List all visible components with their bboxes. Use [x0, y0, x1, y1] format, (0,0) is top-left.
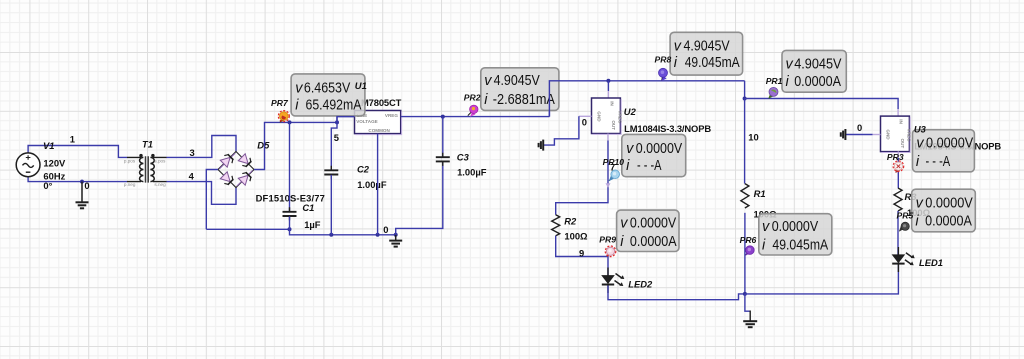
wire U2 output down (net 7): [607, 134, 609, 141]
probe PR2 measurement box: [481, 68, 559, 111]
svg-text:GND: GND: [597, 111, 602, 122]
ground symbol (net 0, middle): [389, 235, 402, 247]
svg-text:IN: IN: [898, 119, 903, 124]
svg-text:PR5: PR5: [897, 210, 914, 220]
svg-text:VREG: VREG: [617, 110, 622, 123]
diode D5b (top-right edge): [238, 153, 253, 168]
svg-text:PR6: PR6: [740, 235, 757, 245]
svg-text:IN: IN: [609, 101, 614, 106]
capacitor C3: [436, 117, 450, 166]
svg-text:9: 9: [579, 248, 584, 259]
svg-text:PR1: PR1: [766, 76, 783, 86]
svg-text:OUT: OUT: [900, 139, 905, 149]
svg-text:0.0000A: 0.0000A: [630, 234, 677, 250]
svg-text:49.045mA: 49.045mA: [772, 238, 828, 254]
svg-text:3: 3: [190, 147, 195, 158]
wire over PR2 box (net 6 corner): [549, 81, 560, 117]
wire bottom rail to LED1: [745, 263, 899, 294]
junction net0/ground: [80, 180, 84, 184]
probe PR8 (blue-violet): [659, 68, 668, 81]
svg-text:DF1510S-E3/77: DF1510S-E3/77: [256, 192, 325, 203]
diode D5d (bottom-right edge): [238, 171, 253, 186]
junction U2 input: [606, 79, 610, 83]
resistor R3: [894, 188, 902, 211]
voltage regulator U1 (LM7805CT): [355, 111, 402, 135]
svg-text:-2.6881mA: -2.6881mA: [493, 92, 555, 108]
ground symbol (net 0, left): [76, 182, 89, 209]
wire top right down to net 10: [744, 81, 746, 99]
svg-text:v: v: [620, 215, 628, 231]
probe PR5 (dark grey): [899, 222, 909, 231]
svg-text:4.9045V: 4.9045V: [494, 73, 541, 89]
wire bridge left vertex to ground rail (net 0): [206, 170, 218, 230]
svg-text:R1: R1: [754, 188, 766, 199]
junction C1 top: [288, 120, 292, 124]
svg-text:VREG: VREG: [906, 129, 911, 142]
probe PR6 (violet): [745, 246, 754, 256]
wire U2 input stub: [607, 81, 609, 91]
ground symbol (net 0, U3) rotated: [841, 129, 846, 140]
wire bridge right vertex up to DC+: [254, 122, 337, 169]
svg-text:49.045mA: 49.045mA: [685, 55, 740, 71]
svg-text:- - -A: - - -A: [926, 154, 951, 170]
bridge rectifier D5: [218, 152, 254, 188]
svg-text:1: 1: [70, 134, 75, 145]
svg-text:0.0000V: 0.0000V: [630, 215, 677, 231]
ground symbol (net 0, U2) rotated: [539, 140, 544, 151]
svg-text:LM1084IS-3.3/NOPB: LM1084IS-3.3/NOPB: [624, 123, 711, 134]
svg-text:0.0000A: 0.0000A: [925, 213, 972, 229]
svg-text:v: v: [295, 80, 303, 96]
wire U3 output down (net 11): [897, 151, 899, 158]
LED2 diode: [602, 268, 625, 294]
probe PR1 measurement box: [782, 50, 846, 92]
svg-text:GND: GND: [886, 129, 891, 140]
svg-text:5: 5: [334, 132, 339, 143]
wire R3 to LED1: [897, 211, 899, 255]
svg-text:0: 0: [84, 180, 89, 191]
wire U3 gnd to ground: [873, 134, 881, 136]
wire net3 (T1 secondary to bridge top): [167, 136, 237, 158]
svg-text:0.0000V: 0.0000V: [772, 219, 819, 235]
diode D5a (left-top edge): [220, 153, 235, 168]
AC source V1: [16, 153, 40, 177]
wire corner up and top run (net 6): [549, 81, 744, 117]
svg-text:4: 4: [189, 171, 195, 182]
svg-text:v: v: [674, 39, 682, 55]
svg-text:v: v: [484, 73, 492, 89]
junction mid ground: [394, 233, 398, 237]
ground symbol (net 0, bottom right): [743, 321, 757, 327]
wire U1 output to corner: [401, 116, 550, 118]
svg-text:s.pos: s.pos: [154, 159, 166, 164]
svg-text:PR10: PR10: [603, 157, 625, 167]
svg-text:0°: 0°: [43, 180, 52, 191]
svg-text:0.0000A: 0.0000A: [794, 74, 841, 90]
svg-text:1.00µF: 1.00µF: [357, 179, 387, 190]
svg-text:LED1: LED1: [919, 257, 943, 268]
svg-text:C2: C2: [357, 163, 370, 174]
svg-text:OUT: OUT: [611, 120, 616, 130]
svg-text:T1: T1: [142, 139, 153, 150]
svg-text:4.9045V: 4.9045V: [684, 39, 730, 55]
svg-text:COMMON: COMMON: [368, 128, 390, 133]
svg-text:120V: 120V: [43, 158, 66, 169]
wire net4 (T1 secondary to bridge bottom): [167, 182, 237, 205]
svg-text:p.pos: p.pos: [124, 159, 136, 164]
junction C1 bottom: [288, 227, 292, 231]
svg-text:0.0000V: 0.0000V: [926, 136, 974, 152]
wire ground rail right segment to C3: [396, 162, 443, 235]
ground jog bottom right: [745, 294, 750, 311]
svg-text:0.0000V: 0.0000V: [925, 196, 973, 212]
svg-text:6.4653V: 6.4653V: [304, 80, 351, 96]
wire net0 bottom (V1 to T1 primary, ground rail): [28, 177, 127, 182]
probe PR8 measurement box: [670, 32, 743, 75]
probe PR3 (white/red dashed): [893, 161, 904, 173]
junction bottom right rail: [743, 292, 747, 296]
svg-text:65.492mA: 65.492mA: [306, 98, 362, 114]
resistor R1: [741, 99, 749, 294]
svg-text:U1: U1: [355, 80, 367, 91]
probe PR1 (violet/green): [768, 87, 778, 98]
wire U2 gnd to ground: [579, 115, 592, 117]
wire step up into U1 input: [337, 117, 355, 123]
svg-text:C1: C1: [302, 202, 314, 213]
probe PR7 measurement box: [291, 74, 365, 116]
svg-text:D5: D5: [257, 139, 270, 150]
svg-text:v: v: [626, 141, 634, 157]
svg-text:v: v: [916, 136, 924, 152]
svg-text:PR2: PR2: [464, 92, 481, 102]
svg-text:1µF: 1µF: [304, 219, 321, 230]
wire net1 top (V1 to T1 primary): [28, 146, 127, 158]
regulator U2 (LM1084IS-3.3/NOPB): [592, 98, 623, 134]
probe PR10 measurement box: [622, 134, 686, 176]
transformer T1: [127, 154, 167, 183]
svg-text:v: v: [762, 219, 770, 235]
svg-text:PR8: PR8: [655, 54, 672, 64]
capacitor C2 (with jog from junction): [324, 122, 338, 234]
svg-text:V1: V1: [43, 140, 54, 151]
svg-text:p.neg: p.neg: [124, 182, 136, 187]
junction C3 top: [441, 115, 445, 119]
wire LED2 to bottom junction: [608, 286, 745, 300]
probe PR6 measurement box: [759, 214, 832, 255]
capacitor C1: [283, 122, 297, 229]
probe PR9 measurement box: [617, 210, 679, 251]
svg-text:LED2: LED2: [628, 278, 653, 289]
svg-text:1.00µF: 1.00µF: [457, 167, 487, 178]
svg-text:PR3: PR3: [887, 152, 904, 162]
junction C2 bottom: [329, 233, 333, 237]
wire R2 bottom to LED2 (net 9): [556, 236, 608, 276]
U2 out pin arrow: [606, 183, 611, 188]
probe PR2 (magenta): [468, 105, 478, 117]
svg-text:- - -A: - - -A: [637, 158, 662, 174]
svg-text:v: v: [916, 196, 924, 212]
probe PR10 (light blue): [609, 170, 620, 181]
svg-text:C3: C3: [457, 152, 470, 163]
svg-text:0.0000V: 0.0000V: [636, 141, 683, 157]
diode D5c (left-bottom edge): [220, 171, 235, 186]
svg-text:PR9: PR9: [599, 234, 616, 244]
svg-text:R2: R2: [564, 216, 577, 227]
wire U1 common down to rail: [377, 134, 379, 235]
wire ground rail left segment: [206, 228, 289, 230]
svg-text:4.9045V: 4.9045V: [794, 57, 842, 73]
svg-text:VREG: VREG: [385, 113, 398, 118]
svg-text:U2: U2: [624, 106, 637, 117]
junction U1 common: [376, 233, 380, 237]
LED1 diode: [892, 247, 915, 272]
probe PR7 (orange): [278, 111, 289, 123]
svg-text:v: v: [786, 57, 794, 73]
junction C2/U1: [335, 120, 339, 124]
probe PR9 (pale pink): [605, 246, 616, 257]
junction net10 top: [743, 97, 747, 101]
svg-text:0: 0: [857, 122, 862, 133]
svg-text:VOLTAGE: VOLTAGE: [356, 119, 378, 124]
wire net10 horizontal to U3: [745, 99, 899, 110]
wire U1 input stub over box: [337, 117, 355, 122]
svg-text:0: 0: [383, 224, 388, 235]
resistor R2: [552, 215, 560, 236]
svg-text:PR7: PR7: [271, 98, 289, 108]
svg-text:s.neg: s.neg: [154, 182, 166, 187]
wire ground rail middle segment: [290, 229, 396, 235]
svg-text:U3: U3: [914, 124, 927, 135]
probe PR5 measurement box: [912, 189, 976, 232]
svg-text:100Ω: 100Ω: [564, 231, 588, 242]
svg-text:0: 0: [582, 117, 587, 128]
svg-text:10: 10: [748, 132, 758, 143]
probe PR3 measurement box: [913, 130, 975, 172]
regulator U3 (LM1084IS-3.3/NOPB): [881, 116, 912, 152]
